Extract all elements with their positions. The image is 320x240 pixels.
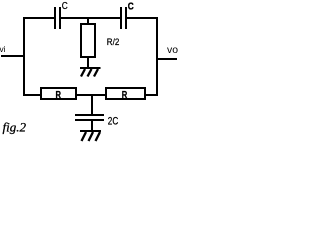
svg-text:C: C (128, 2, 134, 13)
svg-text:vi: vi (0, 45, 6, 54)
svg-text:R: R (56, 90, 62, 101)
svg-text:C: C (62, 1, 68, 12)
svg-text:R/2: R/2 (107, 37, 120, 48)
svg-text:R: R (122, 90, 128, 101)
svg-text:2C: 2C (108, 116, 119, 128)
svg-text:vo: vo (167, 45, 178, 56)
svg-text:fig.2: fig.2 (3, 121, 27, 135)
